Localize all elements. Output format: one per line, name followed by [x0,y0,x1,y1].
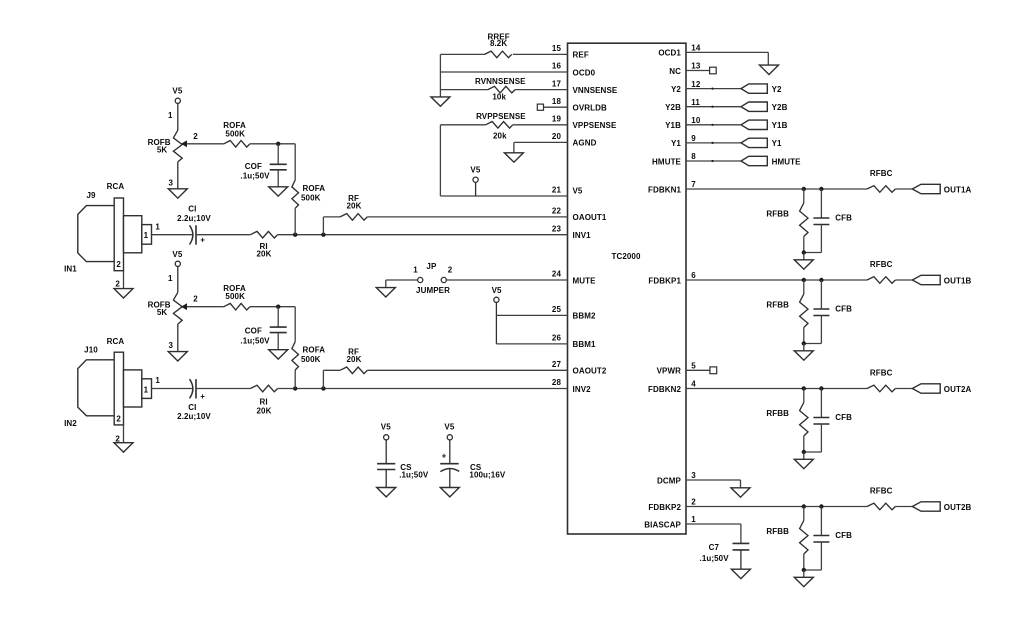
pin 25 BBM2 label [552,305,596,321]
svg-text:5K: 5K [157,145,168,154]
ground feedback OUT2A [794,459,813,468]
node output tag Y2B [741,102,788,112]
node junction channel2 ROFA [293,386,297,390]
wire ROFA to corner channel2 [250,306,295,308]
resistor RVNNSENSE 10k [475,77,526,102]
node junction CFB OUT1B [819,278,823,282]
resistor RI 20K channel2 [250,385,277,415]
pin 9 Y1 label [671,134,696,148]
resistor RVPPSENSE 20k [476,112,526,140]
svg-text:12: 12 [691,80,701,89]
svg-text:COF: COF [245,326,262,335]
ground CS bypass [377,488,396,497]
resistor RF 20K channel2 [340,347,367,373]
svg-text:20: 20 [552,132,562,141]
svg-text:DCMP: DCMP [657,476,682,485]
wire pin15 REF row [440,53,567,55]
wire RFBC to output tag OUT2A [895,388,912,390]
node OVRLDB terminal square [537,104,543,110]
ground OCD1 [760,65,779,74]
wire RVPPSENSE left leg down to V5 row [439,125,441,196]
wire pin5 VPWR stub [686,369,710,371]
svg-text:8: 8 [691,152,696,161]
wire to ground OUT1A [803,253,805,260]
pin 6 FDBKP1 label [648,271,696,285]
svg-text:Y1: Y1 [671,139,681,148]
pin 24 MUTE label [552,270,596,286]
svg-text:2: 2 [691,498,696,507]
svg-text:AGND: AGND [573,139,597,148]
wire pin3 DCMP to ground [686,480,741,488]
resistor RFBB OUT1B [766,280,808,344]
wire pin1 BIASCAP to C7 [686,524,741,543]
ground below left bus [431,97,450,106]
svg-text:RVNNSENSE: RVNNSENSE [475,77,526,86]
svg-text:25: 25 [552,305,562,314]
svg-text:.1u;50V: .1u;50V [240,172,270,181]
svg-text:+: + [442,452,447,461]
svg-text:.1u;50V: .1u;50V [240,336,270,345]
svg-text:3: 3 [168,341,173,350]
node junction RFBB OUT2B [802,504,806,508]
svg-text:RFBC: RFBC [870,487,893,496]
pin 27 OAOUT2 label [552,360,607,376]
connector J9 RCA jack IN1 [64,182,160,289]
svg-text:OUT1B: OUT1B [944,276,972,285]
wire corner down to ROFA vertical channel2 [294,307,296,342]
ground DCMP [731,488,750,497]
wire pin4 to OUT2A network [686,388,867,390]
wire RF2 riser and run to pin27 OAOUT2 [323,370,567,388]
svg-text:JUMPER: JUMPER [416,286,450,295]
capacitor CFB OUT2A [804,389,852,453]
svg-text:26: 26 [552,334,562,343]
ground J9 shield [114,289,133,298]
svg-text:20K: 20K [257,407,272,416]
svg-text:15: 15 [552,44,562,53]
wire J10 pin1 to CI [152,388,194,390]
svg-text:23: 23 [552,224,562,233]
resistor RFBB OUT1A [766,189,808,253]
resistor ROFA 500K horizontal channel2 [223,284,250,310]
svg-text:V5: V5 [470,166,480,175]
svg-text:20K: 20K [257,249,272,258]
svg-text:J9: J9 [86,191,96,200]
jumper JP [413,262,453,295]
node junction CFB OUT2A [819,386,823,390]
pin 28 INV2 label [552,378,591,394]
pin 14 OCD1 label [658,44,700,58]
svg-text:22: 22 [552,207,562,216]
pin 26 BBM1 label [552,334,596,350]
resistor RFBB OUT2A [766,389,808,453]
svg-text:RCA: RCA [107,182,125,191]
node junction channel2 RF [321,386,325,390]
svg-text:Y1: Y1 [772,139,782,148]
ground jumper pin1 [376,288,395,297]
svg-text:Y2: Y2 [671,85,681,94]
svg-text:3: 3 [691,471,696,480]
svg-text:RFBB: RFBB [766,301,789,310]
wire to ground OUT1B [803,344,805,351]
pin 23 INV1 label [552,224,591,240]
pin 4 FDBKN2 label [648,380,696,394]
node output tag Y1 [741,138,782,148]
node output tag OUT2B [912,502,971,512]
svg-text:20K: 20K [347,355,362,364]
node junction ground OUT1B [802,341,806,345]
node junction RFBB OUT1A [802,187,806,191]
capacitor CI 2.2u;10V channel2 [177,379,211,421]
svg-text:24: 24 [552,270,562,279]
svg-text:VNNSENSE: VNNSENSE [573,86,618,95]
node VPWR terminal square [710,367,717,374]
resistor ROFA 500K vertical channel2 [292,342,325,370]
node output tag Y1B [741,120,788,130]
svg-text:OCD0: OCD0 [573,68,596,77]
pin 22 OAOUT1 label [552,207,607,223]
ground CS bulk [440,488,459,497]
ground ROFB pin3 channel1 [168,189,187,198]
svg-text:5K: 5K [157,308,168,317]
svg-text:2: 2 [193,132,198,141]
svg-text:OVRLDB: OVRLDB [573,104,607,113]
svg-text:CFB: CFB [835,413,852,422]
svg-text:13: 13 [691,62,701,71]
svg-text:Y2B: Y2B [772,103,788,112]
resistor RFBC OUT2A [867,369,895,392]
pin 20 AGND label [552,132,597,148]
wire J9 pin2 to ground [123,271,125,289]
svg-text:OCD1: OCD1 [658,49,681,58]
svg-text:RFBC: RFBC [870,369,893,378]
pin 10 Y1B label [665,116,701,130]
potentiometer ROFB 5K channel2 [148,274,199,352]
node junction COF channel2 [276,305,280,309]
pin 12 Y2 label [671,80,701,94]
wire to ground OUT2B [803,570,805,577]
svg-text:CFB: CFB [835,213,852,222]
pin 2 FDBKP2 label [648,498,696,512]
wire RI to IC pin28 INV2 [278,388,568,390]
pin 3 DCMP label [657,471,696,485]
wire CI to RI [196,234,250,236]
svg-text:20K: 20K [347,202,362,211]
svg-text:10: 10 [691,116,701,125]
node junction COF channel1 [276,142,280,146]
node NC terminal square [710,67,717,74]
wire ROFA vertical to node channel2 [294,370,296,389]
capacitor C7 .1u;50V [700,543,750,569]
svg-text:JP: JP [426,262,437,271]
resistor ROFA 500K horizontal channel1 [223,121,250,147]
svg-text:100u;16V: 100u;16V [469,471,505,480]
ground AGND [504,153,523,162]
wire to ground OUT2A [803,452,805,459]
svg-text:18: 18 [552,97,562,106]
svg-text:+: + [200,236,205,245]
ground C7 [731,569,750,578]
wire pin16 OCD0 row [440,71,567,73]
svg-text:INV1: INV1 [573,231,592,240]
resistor RFBC OUT1A [867,169,895,192]
node junction RFBB OUT2A [802,386,806,390]
svg-text:1: 1 [168,274,173,283]
potentiometer ROFB 5K channel1 [148,111,199,189]
svg-text:ROFA: ROFA [303,345,326,354]
wire pin11 Y2B to output tag [686,106,741,108]
node junction CFB OUT2B [819,504,823,508]
svg-text:FDBKN2: FDBKN2 [648,385,681,394]
svg-text:+: + [200,392,205,401]
node output tag Y2 [741,84,782,94]
pin 1 BIASCAP label [644,515,696,529]
pin 15 REF label [552,44,589,60]
svg-text:2: 2 [193,295,198,304]
wire wiper to ROFA channel2 [187,306,224,308]
svg-text:REF: REF [573,51,589,60]
svg-text:Y2B: Y2B [665,103,681,112]
pin 5 VPWR label [657,362,697,376]
pin 19 VPPSENSE label [552,115,617,131]
svg-text:ROFA: ROFA [303,184,326,193]
capacitor CS 100u;16V polarized [440,452,506,488]
ground feedback OUT1A [794,260,813,269]
svg-text:V5: V5 [492,286,502,295]
svg-text:27: 27 [552,360,562,369]
svg-text:9: 9 [691,134,696,143]
svg-text:INV2: INV2 [573,385,592,394]
svg-text:Y2: Y2 [772,85,782,94]
wire pin13 NC stub [686,70,710,72]
svg-text:3: 3 [168,179,173,188]
power V5 terminal above ROFB channel2 [172,250,182,292]
pin 18 OVRLDB label [552,97,607,113]
svg-text:20k: 20k [493,131,507,140]
svg-text:RFBC: RFBC [870,260,893,269]
capacitor COF .1u;50V channel2 [240,307,286,350]
wire RFBC to output tag OUT2B [895,506,912,508]
svg-text:MUTE: MUTE [573,276,597,285]
node output tag OUT2A [912,384,971,394]
node output tag OUT1A [912,184,971,194]
power V5 terminal for CS bulk cap [444,423,454,464]
svg-text:RFBB: RFBB [766,409,789,418]
svg-text:FDBKP2: FDBKP2 [648,503,681,512]
svg-text:8.2K: 8.2K [490,39,507,48]
wire left bus vertical to ground [439,54,441,97]
svg-text:7: 7 [691,180,696,189]
wire CI to RI channel2 [196,388,250,390]
node output tag HMUTE [741,156,801,166]
wire pin10 Y1B to output tag [686,124,741,126]
svg-text:500K: 500K [301,355,321,364]
wire V5 to pin25 BBM2 [496,314,567,316]
svg-text:FDBKP1: FDBKP1 [648,276,681,285]
svg-text:500K: 500K [225,292,245,301]
svg-text:RFBC: RFBC [870,169,893,178]
wire J9 pin1 to CI [152,234,194,236]
svg-text:17: 17 [552,79,562,88]
svg-text:2: 2 [116,260,121,269]
svg-text:11: 11 [691,98,700,107]
svg-text:Y1B: Y1B [665,121,681,130]
svg-text:V5: V5 [381,423,391,432]
capacitor CFB OUT2B [804,507,852,571]
svg-text:V5: V5 [444,423,454,432]
capacitor CFB OUT1B [804,280,852,344]
wire pin7 to OUT1A network [686,188,867,190]
ground COF channel2 [269,350,288,359]
wire jumper to ground [386,280,418,288]
wire pin20 AGND to ground [514,142,568,152]
resistor RREF 8.2K [485,33,512,58]
svg-text:HMUTE: HMUTE [652,157,682,166]
svg-text:28: 28 [552,378,562,387]
ground J10 shield [114,443,133,452]
wire pin9 Y1 to output tag [686,142,741,144]
svg-text:OAOUT1: OAOUT1 [573,213,607,222]
svg-text:IN1: IN1 [64,265,77,274]
wire RFBC to output tag OUT1A [895,188,912,190]
svg-text:.1u;50V: .1u;50V [399,471,429,480]
svg-text:1: 1 [155,376,160,385]
wire ROFA vertical to node channel1 [294,208,296,234]
resistor ROFA 500K vertical channel1 [292,180,325,208]
svg-text:RCA: RCA [107,337,125,346]
node junction ground OUT1A [802,250,806,254]
svg-text:NC: NC [669,67,681,76]
svg-text:1: 1 [691,515,696,524]
svg-text:14: 14 [691,44,701,53]
svg-text:COF: COF [245,162,262,171]
svg-text:10k: 10k [492,93,506,102]
svg-text:C7: C7 [709,543,720,552]
svg-text:5: 5 [691,362,696,371]
svg-text:CI: CI [188,403,196,412]
node junction RFBB OUT1B [802,278,806,282]
svg-text:1: 1 [413,266,418,275]
svg-text:2.2u;10V: 2.2u;10V [177,214,211,223]
wire pin17 VNNSENSE row [440,89,567,91]
wire pin6 to OUT1B network [686,279,867,281]
svg-text:2.2u;10V: 2.2u;10V [177,412,211,421]
svg-text:OUT1A: OUT1A [944,185,972,194]
wire pin21 V5 row [440,195,567,197]
capacitor CI 2.2u;10V channel1 [177,205,211,245]
svg-text:1: 1 [144,386,149,395]
resistor RF 20K channel1 [340,194,367,220]
pin 16 OCD0 label [552,62,596,78]
svg-text:FDBKN1: FDBKN1 [648,185,681,194]
svg-text:16: 16 [552,62,562,71]
svg-text:2: 2 [115,280,120,289]
svg-text:J10: J10 [84,346,98,355]
node junction ground OUT2B [802,568,806,572]
svg-text:VPWR: VPWR [657,367,682,376]
svg-text:OUT2B: OUT2B [944,503,972,512]
wire V5 to pin26 BBM1 [496,343,567,345]
wire pin18 OVRLDB stub [544,106,568,108]
svg-text:IN2: IN2 [64,419,77,428]
svg-text:2: 2 [448,266,453,275]
svg-text:19: 19 [552,115,562,124]
connector J10 RCA jack IN2 [64,337,160,444]
svg-text:21: 21 [552,186,562,195]
svg-text:CFB: CFB [835,304,852,313]
wire corner down to ROFA vertical channel1 [294,144,296,180]
svg-text:VPPSENSE: VPPSENSE [573,121,617,130]
wire pin19 VPPSENSE row [440,124,567,126]
ground COF channel1 [269,187,288,196]
pin 11 Y2B label [665,98,700,112]
svg-text:OUT2A: OUT2A [944,385,972,394]
node junction channel1 ROFA [293,233,297,237]
wire ROFA to corner channel1 [250,143,295,145]
power V5 terminal for BBM pins [492,286,502,344]
svg-text:BIASCAP: BIASCAP [644,520,681,529]
capacitor CFB OUT1A [804,189,852,253]
svg-text:RI: RI [259,397,267,406]
svg-text:1: 1 [168,111,173,120]
wire RI to IC pin23 INV1 [278,234,568,236]
ground feedback OUT1B [794,351,813,360]
node junction ground OUT2A [802,450,806,454]
wire J10 pin2 to ground [123,425,125,443]
svg-text:RVPPSENSE: RVPPSENSE [476,112,526,121]
ground feedback OUT2B [794,577,813,586]
svg-text:4: 4 [691,380,696,389]
svg-text:1: 1 [144,231,149,240]
svg-text:V5: V5 [573,187,583,196]
resistor RFBC OUT1B [867,260,895,283]
svg-text:500K: 500K [225,129,245,138]
node output tag OUT1B [912,275,971,285]
wire pin8 HMUTE to output tag [686,160,741,162]
op-amp U1 TC2000 amplifier IC body [568,43,687,534]
svg-text:CI: CI [188,205,196,214]
pin 13 NC label [669,62,701,76]
resistor RFBB OUT2B [766,507,808,571]
power V5 terminal for CS bypass cap [381,423,391,464]
capacitor CS .1u;50V [377,463,429,488]
svg-text:.1u;50V: .1u;50V [700,554,730,563]
capacitor COF .1u;50V channel1 [240,144,286,187]
wire RF1 riser and output run to pin22 OAOUT1 [323,217,567,235]
resistor RI 20K channel1 [250,231,277,258]
power V5 terminal at pin21 [470,166,480,196]
svg-text:V5: V5 [172,250,182,259]
svg-text:HMUTE: HMUTE [772,157,802,166]
node junction CFB OUT1A [819,187,823,191]
wire RFBC to output tag OUT1B [895,279,912,281]
svg-text:500K: 500K [301,193,321,202]
svg-text:TC2000: TC2000 [611,252,641,261]
svg-text:RFBB: RFBB [766,210,789,219]
svg-text:BBM2: BBM2 [573,312,597,321]
pin 8 HMUTE label [652,152,696,166]
svg-text:6: 6 [691,271,696,280]
wire wiper to ROFA channel1 [187,143,224,145]
wire pin2 to OUT2B network [686,506,867,508]
svg-text:BBM1: BBM1 [573,340,597,349]
svg-text:V5: V5 [172,87,182,96]
pin 7 FDBKN1 label [648,180,696,194]
svg-text:Y1B: Y1B [772,121,788,130]
wire pin14 OCD1 to ground [686,52,768,65]
resistor RFBC OUT2B [867,487,895,510]
svg-text:OAOUT2: OAOUT2 [573,367,607,376]
